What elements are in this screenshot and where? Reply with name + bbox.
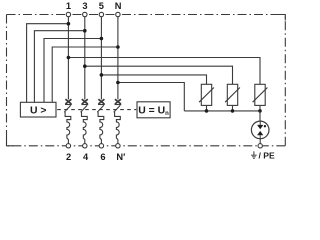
wire tee N to U> monitor bbox=[52, 47, 118, 102]
node N-left bbox=[116, 45, 120, 49]
svg-text:1: 1 bbox=[66, 1, 71, 11]
svg-text:6: 6 bbox=[100, 152, 105, 162]
branch L2: disconnector + switch + impedance bbox=[81, 99, 89, 143]
node L1-left bbox=[67, 22, 71, 26]
wire L1 to varistor R3 bbox=[68, 58, 260, 85]
svg-text:U = Un: U = Un bbox=[138, 105, 169, 117]
spark gap F1 (gas discharge tube) bbox=[251, 111, 269, 144]
node varistor R3 to bus bbox=[258, 109, 262, 113]
PE bus wire bbox=[184, 110, 260, 112]
node N-right bbox=[116, 81, 120, 85]
control unit U=Un box bbox=[137, 102, 170, 118]
node L2-right bbox=[83, 64, 87, 68]
svg-text:U >: U > bbox=[30, 105, 46, 116]
svg-text:2: 2 bbox=[66, 152, 71, 162]
terminal N bbox=[116, 12, 120, 16]
branch L1: disconnector + switch + impedance bbox=[64, 99, 72, 143]
wire tee L2 to U> monitor bbox=[34, 31, 84, 103]
wire L2 to varistor R2 bbox=[85, 66, 233, 84]
terminal 4 bbox=[83, 144, 87, 148]
ground symbol bbox=[251, 151, 257, 158]
wire L2 vertical from terminal 3 bbox=[84, 17, 86, 100]
svg-text:3: 3 bbox=[82, 1, 87, 11]
branch L3: disconnector + switch + impedance bbox=[97, 99, 105, 143]
wire L1 vertical from terminal 1 bbox=[67, 17, 69, 100]
terminal 2 bbox=[66, 144, 70, 148]
wire N vertical from terminal N bbox=[117, 17, 119, 100]
svg-text:/ PE: / PE bbox=[259, 151, 276, 161]
svg-text:4: 4 bbox=[83, 152, 89, 162]
svg-text:5: 5 bbox=[99, 1, 104, 11]
varistor R2 bbox=[225, 84, 240, 111]
node varistor R1 to bus bbox=[205, 109, 209, 113]
node L2-left bbox=[83, 29, 87, 33]
svg-text:N: N bbox=[115, 1, 122, 11]
terminal PE bbox=[258, 144, 262, 148]
branch N: disconnector + switch + impedance bbox=[114, 99, 122, 143]
mechanical coupling dashed line bbox=[57, 109, 136, 111]
varistor R1 bbox=[199, 84, 214, 111]
varistor R3 bbox=[253, 84, 268, 111]
wire L3 to varistor R1 bbox=[101, 75, 206, 84]
enclosure boundary (dash-dot) bbox=[7, 15, 286, 146]
wire L3 vertical from terminal 5 bbox=[100, 17, 102, 100]
voltage monitor U> box bbox=[20, 102, 56, 117]
wire tee L1 to U> monitor bbox=[27, 24, 69, 103]
terminal 6 bbox=[99, 144, 103, 148]
svg-text:N′: N′ bbox=[116, 152, 126, 162]
node L1-right bbox=[67, 56, 71, 60]
wire tee L3 to U> monitor bbox=[44, 39, 101, 103]
wire N to PE bus bbox=[118, 83, 184, 111]
node L3-right bbox=[100, 73, 104, 77]
terminal 1 bbox=[66, 12, 70, 16]
node L3-left bbox=[100, 37, 104, 41]
terminal N' bbox=[116, 144, 120, 148]
terminal 3 bbox=[83, 12, 87, 16]
terminal 5 bbox=[99, 12, 103, 16]
node varistor R2 to bus bbox=[231, 109, 235, 113]
